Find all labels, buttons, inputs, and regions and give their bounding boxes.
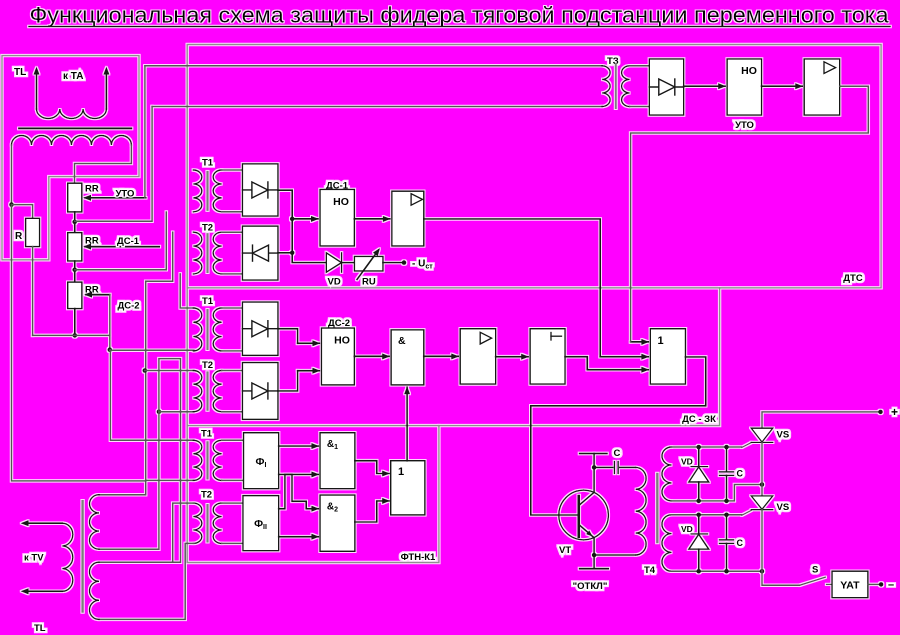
node plus terminal: [878, 410, 883, 415]
wire rectifier1 output: [278, 190, 292, 219]
svg-text:VS: VS: [777, 502, 790, 513]
terminal arrow up (to TA) left: [36, 72, 38, 109]
wire T2 bottom (FTN) west down to kTV: [99, 543, 194, 619]
wire one-shot output jog to OR: [565, 357, 648, 370]
wire VD to RU: [342, 262, 354, 264]
wire arrow amplifier to one-shot: [496, 356, 528, 358]
junction DS-1 input node: [290, 217, 295, 222]
logic AND1 block: [320, 433, 355, 489]
wire T1 right bottom to diode box: [222, 350, 243, 352]
op-amp block (DS-1): [392, 191, 424, 246]
wire T3 secondary bottom to rectifier: [630, 106, 650, 108]
transformer TL secondary winding (to TV): [62, 523, 73, 591]
block NO (DS-1): [320, 189, 354, 246]
wire emitter to OTKL terminal: [593, 555, 595, 569]
svg-text:Т1: Т1: [202, 158, 214, 169]
resistor R: [26, 218, 40, 246]
wire T1 right bottom to F1: [222, 479, 244, 481]
svg-text:УТО: УТО: [735, 120, 754, 131]
wire UTO control from T3 area: [144, 66, 146, 198]
transformer TL primary winding 2: [89, 562, 99, 619]
resistor RR1: [68, 183, 82, 212]
svg-text:ТЗ: ТЗ: [607, 56, 619, 67]
wire RU to -Ust terminal: [383, 262, 402, 264]
transformer T4 core: [656, 474, 658, 542]
switch S blade: [800, 577, 826, 585]
junction C2 top: [724, 513, 729, 518]
svg-text:ДС-2: ДС-2: [118, 301, 140, 312]
wire junction east to T2 coil bottom: [159, 411, 194, 413]
block F-II: [243, 496, 279, 551]
wire bus down to T1 (FTN group) top: [110, 350, 194, 441]
wire T1 right top to diode box: [222, 307, 243, 309]
wire R bottom down: [32, 247, 34, 336]
wire arrow F-II to AND2: [279, 536, 319, 538]
wire OR output up arrow into AND (DS-2): [406, 387, 408, 460]
transformer TL primary winding 1: [89, 495, 99, 550]
svg-text:ДС - ЗК: ДС - ЗК: [682, 414, 716, 425]
wire TA secondary right terminal to RR1: [75, 145, 132, 183]
wire arrow AND to amplifier: [424, 355, 458, 357]
one-shot block: [530, 329, 565, 384]
wire emitter to T4 primary bottom: [594, 554, 636, 556]
junction T2 bottom bus (DS-2 group): [157, 409, 162, 414]
transformer T4 primary winding: [636, 467, 647, 555]
svg-text:Т2: Т2: [201, 490, 212, 501]
wire arrow UTO branch into OR: [631, 341, 649, 343]
junction VD1 bottom: [696, 499, 701, 504]
wire arrow rectifier to NO (UTO): [684, 85, 725, 87]
junction RR2-RR3: [72, 268, 77, 273]
transformer T3: [602, 66, 610, 107]
wire rectifier3 output: [278, 329, 298, 344]
logic OR block (FTN): [391, 461, 425, 515]
svg-text:VD: VD: [681, 457, 693, 467]
junction C1 bottom: [724, 499, 729, 504]
wire arrow into NO DS-2 (lower): [298, 370, 320, 372]
svg-text:ДС-1: ДС-1: [117, 236, 140, 247]
rectifier VD box (UTO): [649, 59, 683, 115]
svg-text:к ТА: к ТА: [63, 71, 83, 82]
wire junction east to T1 bottom bus: [75, 212, 167, 270]
wire node down to VD: [292, 219, 326, 263]
wire T2 right top to F2: [222, 502, 243, 504]
node minus terminal: [879, 582, 884, 587]
svg-text:RU: RU: [362, 277, 376, 288]
thyristor VS1: [751, 428, 773, 442]
wire TA secondary left terminal down: [11, 145, 13, 205]
wire T1 right bottom to diode box: [222, 211, 243, 213]
transformer T1 FTN group: [193, 440, 202, 480]
op-amp block (DS-2): [460, 329, 496, 384]
svg-text:к TV: к TV: [24, 553, 44, 564]
gate lead VS2: [742, 510, 752, 515]
wire left bus down to kTV winding 1 top: [12, 205, 146, 495]
wire arrow NO to amplifier: [354, 218, 389, 220]
wire VS1 cathode down: [761, 442, 763, 496]
wire bus down to kTV winding 1 bottom: [99, 412, 159, 550]
junction VD2 top: [696, 513, 701, 518]
transformer T2 DS-1 group: [193, 232, 202, 274]
capacitor C (driver): [594, 466, 613, 468]
svg-text:"ОТКЛ": "ОТКЛ": [573, 581, 608, 592]
block F-I: [244, 433, 279, 489]
junction VS1-VS2 node: [760, 482, 765, 487]
transformer TA primary winding: [37, 109, 107, 119]
wire arrow NO to AND: [354, 355, 389, 357]
wire VS2 cathode down: [761, 510, 763, 572]
wire junction east to T2 coil top: [145, 370, 194, 372]
wire OR output to transistor base: [531, 357, 706, 515]
junction C2 bottom: [724, 569, 729, 574]
logic OR block 1 (DS-3K): [650, 329, 685, 384]
svg-text:1: 1: [658, 335, 664, 347]
wire arrow F-I to AND1: [279, 445, 319, 447]
block boundary TL current-transformer box: [2, 56, 139, 260]
wire YAT to minus terminal: [868, 583, 879, 585]
wire T3 primary bottom feed: [152, 106, 602, 108]
wire T2 right bottom to F2: [222, 542, 243, 544]
diode VD2: [698, 515, 700, 534]
svg-text:С: С: [737, 538, 744, 548]
wire arrow DS-1 branch into OR: [600, 356, 648, 358]
wire arrow NO to amplifier (UTO): [762, 85, 803, 87]
svg-text:Функциональная схема защиты фи: Функциональная схема защиты фидера тягов…: [30, 3, 890, 28]
terminal bar OTKL: [580, 568, 609, 570]
svg-text:Т2: Т2: [202, 360, 213, 371]
capacitor C2: [726, 515, 728, 540]
node -Ust: [402, 260, 407, 265]
wire bus T2 bottom up and east: [159, 359, 181, 563]
arrow DS-2 into RR3: [86, 294, 110, 296]
transformer T4 secondary winding 2: [662, 515, 672, 571]
wire rectifier2 output: [278, 252, 292, 254]
junction RR1-RR2: [72, 220, 77, 225]
svg-text:RR: RR: [85, 236, 99, 247]
transistor VT: [559, 490, 609, 540]
junction emitter node: [592, 553, 597, 558]
diode VD1: [698, 447, 700, 467]
wire to T1 coil bottom (DS-2 group): [110, 349, 194, 351]
wire RR1 to RR2: [74, 212, 76, 233]
rectifier VD box (T2 DS-1): [242, 226, 278, 280]
wire arrow into NO DS-2 (upper): [298, 342, 320, 344]
wire T2 right bottom to diode box: [222, 273, 243, 275]
wire T1 right top to F1: [222, 439, 244, 441]
wire AND2 to OR (FTN): [355, 501, 389, 522]
wire cathode to switch: [762, 571, 800, 585]
wire gate rail 2: [672, 514, 742, 516]
block boundary FTN-K1: [187, 426, 439, 563]
junction VD2 bottom: [696, 569, 701, 574]
svg-text:VS: VS: [777, 430, 790, 441]
svg-text:TL: TL: [14, 67, 26, 78]
junction VS2 cathode node: [760, 569, 765, 574]
switch S fixed contact: [827, 583, 833, 585]
wire gate rail 1: [672, 446, 742, 448]
wire bottom rail: [33, 334, 110, 336]
svg-text:НО: НО: [334, 335, 350, 347]
wire T1 right top to diode box: [222, 169, 243, 171]
svg-text:TL: TL: [34, 623, 46, 634]
resistor RR2: [68, 233, 82, 261]
block NO (UTO): [727, 59, 762, 115]
transformer TL core (bottom): [81, 501, 83, 611]
wire T2 bottom (DS-1) to T1 top (DS-2): [180, 274, 194, 308]
op-amp block (UTO): [804, 59, 840, 115]
junction collector node: [592, 465, 597, 470]
logic AND block (DS-2): [391, 330, 424, 385]
terminal arrow to TV (upper): [26, 522, 62, 524]
wire T3 secondary top to rectifier: [630, 65, 650, 67]
rectifier VD box (T1 DS-2): [242, 302, 278, 355]
wire F-I crossover to AND2: [279, 474, 319, 508]
svg-text:YAT: YAT: [840, 580, 860, 592]
wire T2 top bus down (DS-1 group): [146, 232, 173, 481]
wire T3 primary top feed: [145, 65, 602, 67]
wire junction to T3 feed bus: [75, 107, 152, 222]
svg-text:1: 1: [398, 466, 404, 478]
svg-text:ФТН-К1: ФТН-К1: [401, 552, 436, 563]
diode VD (setpoint): [326, 253, 341, 272]
junction C1 top: [724, 445, 729, 450]
transformer T1 DS-2 group: [193, 308, 202, 351]
rectifier VD box (T2 DS-2): [242, 363, 278, 420]
junction at node left bus: [9, 202, 14, 207]
wire T2 top (FTN) west to kTV: [99, 503, 194, 562]
svg-text:VT: VT: [559, 545, 571, 556]
transformer TA secondary winding: [12, 136, 132, 146]
transformer TA core: [19, 127, 131, 129]
svg-text:Т1: Т1: [202, 296, 214, 307]
transformer T2 FTN group: [193, 503, 202, 543]
junction VD1 top: [696, 445, 701, 450]
wire rectifier4 output: [278, 371, 298, 391]
wire arrow into NO DS-1: [292, 218, 318, 220]
svg-text:S: S: [812, 565, 818, 576]
wire supply to collector node: [593, 454, 595, 468]
wire T1 bottom (FTN) west: [146, 479, 194, 481]
wire F-II crossover to AND1: [279, 474, 319, 508]
transformer T2 DS-2 group: [193, 371, 202, 412]
wire RR3 bottom down: [74, 309, 76, 336]
gate lead VS1: [742, 443, 752, 448]
wire RR2 to RR3: [74, 261, 76, 282]
svg-text:С: С: [614, 448, 621, 459]
block YAT: [832, 571, 868, 598]
terminal arrow up (to TA) right: [105, 72, 107, 109]
wire T2 right top to diode box: [222, 370, 243, 372]
wire AND1 to OR (FTN): [355, 461, 389, 474]
junction rectifier2 node: [290, 251, 295, 256]
svg-text:VD: VD: [681, 524, 693, 534]
rheostat RU: [354, 256, 383, 271]
wire cathode rail 1: [672, 485, 763, 501]
junction bottom feed: [108, 347, 113, 352]
junction bottom rail: [73, 333, 78, 338]
capacitor C1: [726, 447, 728, 472]
svg-text:ДТС: ДТС: [843, 273, 863, 284]
rectifier VD box (T1 DS-1): [242, 164, 278, 216]
transformer T1 DS-1 group: [193, 170, 202, 212]
wire cathode rail 2: [672, 570, 763, 572]
terminal arrow to TV (lower): [26, 590, 62, 592]
svg-text:Т4: Т4: [644, 565, 656, 576]
svg-text:RR: RR: [85, 184, 99, 195]
block boundary DTS: [187, 45, 881, 288]
supply bar (collector): [580, 453, 607, 455]
svg-text:Т1: Т1: [201, 429, 213, 440]
arrow UTO into RR1: [85, 197, 146, 199]
svg-text:Т2: Т2: [202, 223, 213, 234]
svg-text:–: –: [888, 579, 894, 591]
block NO (DS-2): [321, 328, 354, 385]
transformer T4 secondary winding 1: [662, 447, 672, 501]
svg-text:С: С: [737, 469, 744, 479]
resistor RR3: [68, 282, 82, 309]
svg-text:УТО: УТО: [116, 189, 135, 200]
block boundary DS-3K: [187, 288, 719, 426]
logic AND2 block: [320, 495, 355, 551]
wire plus rail: [762, 412, 879, 428]
wire amplifier output to DS-3K: [424, 219, 600, 357]
wire UTO feedback to OR input: [631, 86, 869, 342]
svg-text:&: &: [398, 335, 406, 347]
arrow DS-1 into RR2: [85, 246, 159, 248]
wire node to resistor R: [12, 205, 33, 219]
svg-text:VD: VD: [328, 277, 341, 288]
thyristor VS2: [751, 496, 773, 510]
junction T2 top (DS-2 group): [143, 368, 148, 373]
wire T2 right top to diode box: [222, 231, 243, 233]
wire DS-2 arrow feed down: [109, 295, 111, 350]
svg-text:+: +: [891, 405, 898, 419]
wire T2 right bottom to diode box: [222, 411, 243, 413]
svg-text:НО: НО: [333, 196, 349, 208]
svg-text:НО: НО: [741, 65, 757, 77]
svg-text:R: R: [15, 231, 23, 242]
